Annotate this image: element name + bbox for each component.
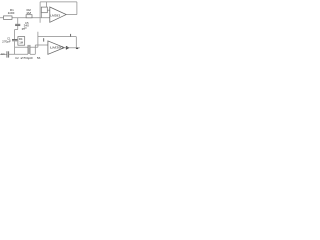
feedback top wire stage 1 <box>40 1 77 3</box>
feedback right vertical stage 1 <box>76 2 78 15</box>
riser to non-inverting input <box>34 45 36 54</box>
op-amp U2 triangle <box>48 41 65 54</box>
wire input line stage 1 <box>0 17 50 19</box>
op-amp U1 triangle <box>50 7 66 22</box>
pin smudge below feedback wire <box>43 38 45 41</box>
bottom wire right of C2 <box>30 53 35 55</box>
inverting input stub <box>47 9 50 11</box>
capacitor C5 bottom lead <box>17 26 19 30</box>
output arrow stage 2 <box>66 46 70 50</box>
wire stage 2 input <box>15 46 29 48</box>
circuit schematic: two-stage comparator amplifier <box>0 0 80 64</box>
svg-text:270pF: 270pF <box>2 39 11 43</box>
svg-text:56: 56 <box>37 56 41 60</box>
capacitor C2 plates <box>27 45 29 54</box>
capacitor C5 plates <box>15 23 20 25</box>
capacitor C5 top lead <box>17 18 19 24</box>
svg-text:C4: C4 <box>1 52 5 56</box>
wire jog to C1 <box>15 29 18 31</box>
pin smudge above feedback wire right <box>70 34 72 37</box>
R3 bottom lead <box>41 13 43 18</box>
capacitor C4 plates <box>6 51 8 57</box>
feedback drop into R3 <box>45 2 47 7</box>
wire from C2 to junction <box>30 46 38 48</box>
capacitor C1 bottom lead <box>14 41 16 47</box>
resistor R4 box <box>18 37 25 46</box>
output wire stage 2 <box>64 47 79 49</box>
svg-text:270pF: 270pF <box>20 56 33 60</box>
bottom wire to C2 <box>9 53 28 55</box>
resistor R3 box feedback <box>41 7 47 13</box>
non-inverting input wire stage 2 <box>35 44 48 46</box>
feedback right vertical stage 2 <box>75 37 77 48</box>
capacitor C1 top lead <box>14 30 16 40</box>
feedback junction vertical stage 1 <box>39 2 41 18</box>
output junction dot <box>76 48 79 50</box>
svg-text:C2: C2 <box>15 56 19 60</box>
svg-text:1M: 1M <box>26 11 32 15</box>
svg-text:LM393: LM393 <box>50 14 60 18</box>
capacitor C1 plates <box>12 39 17 41</box>
svg-text:pF: pF <box>22 26 28 30</box>
svg-text:LM393: LM393 <box>50 45 64 49</box>
C1 lead down to bottom wire <box>14 47 16 54</box>
output wire stage 1 <box>66 14 77 16</box>
bottom wire <box>0 53 7 55</box>
feedback top wire stage 2 <box>38 36 76 38</box>
resistor R1 <box>4 16 13 20</box>
svg-text:10M: 10M <box>8 11 16 15</box>
svg-text:1M: 1M <box>19 41 24 45</box>
resistor R2 box <box>26 15 32 18</box>
junction vertical stage 2 <box>37 32 39 47</box>
